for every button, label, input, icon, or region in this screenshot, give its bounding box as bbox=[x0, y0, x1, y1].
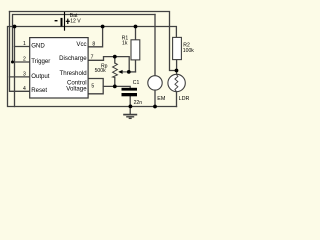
capacitor C1 plates bbox=[122, 88, 138, 91]
wire pin3 stub bbox=[10, 76, 30, 78]
svg-text:Reset: Reset bbox=[31, 87, 47, 94]
svg-text:7: 7 bbox=[91, 55, 94, 61]
wire pin1 feed from minus dot bbox=[15, 27, 30, 47]
svg-text:1k: 1k bbox=[122, 41, 128, 47]
wire inner rail (EM net) bbox=[13, 15, 156, 63]
svg-text:Voltage: Voltage bbox=[66, 85, 87, 92]
wire pot right end bbox=[129, 71, 136, 73]
svg-text:12 V: 12 V bbox=[70, 18, 81, 24]
IC U1 555 timer box bbox=[30, 38, 88, 98]
node EM bottom bbox=[153, 105, 157, 109]
potentiometer Rp wiper arrow bbox=[122, 71, 129, 73]
ground symbol bbox=[123, 115, 137, 119]
svg-text:5: 5 bbox=[91, 83, 94, 89]
wire R1 top feed bbox=[135, 27, 137, 40]
svg-text:4: 4 bbox=[23, 86, 26, 92]
svg-text:LDR: LDR bbox=[179, 96, 190, 102]
node vcc pin8 bbox=[101, 25, 105, 29]
wire C1 bottom to ground bbox=[129, 96, 131, 114]
wire EM top drop bbox=[154, 15, 156, 76]
resistor R1 1k body bbox=[131, 40, 140, 60]
node R1 top bbox=[134, 25, 138, 29]
svg-text:500k: 500k bbox=[95, 68, 106, 74]
node divider junction bbox=[175, 69, 179, 73]
node pot wiper junction bbox=[127, 70, 131, 74]
svg-text:1: 1 bbox=[23, 41, 26, 47]
svg-text:22n: 22n bbox=[134, 100, 143, 106]
battery plus sign bbox=[66, 19, 70, 24]
svg-text:100k: 100k bbox=[183, 48, 194, 54]
wire pin6 step and pin5 stub bbox=[88, 79, 103, 94]
LDR inner zigzag bbox=[175, 75, 178, 92]
node pin2 feed bbox=[11, 61, 14, 64]
svg-text:Discharge: Discharge bbox=[59, 55, 87, 62]
battery Bat plates bbox=[61, 18, 63, 27]
wire pin7 stub bbox=[88, 57, 129, 72]
svg-text:Threshold: Threshold bbox=[59, 70, 86, 77]
node pin7 / Rp top junction bbox=[113, 55, 117, 59]
wire outer rail top (trigger/divider net) bbox=[10, 12, 177, 71]
svg-text:2: 2 bbox=[23, 57, 26, 63]
svg-text:EM: EM bbox=[157, 96, 166, 102]
svg-text:Trigger: Trigger bbox=[31, 58, 50, 65]
wire Rp bottom stub bbox=[114, 78, 116, 87]
node C1 ground bbox=[129, 105, 133, 109]
svg-text:GND: GND bbox=[31, 43, 45, 50]
wire Rp top stub bbox=[114, 57, 116, 63]
LDR circle bbox=[168, 74, 185, 91]
electromagnet EM circle bbox=[148, 76, 162, 90]
wire R2 bottom to divider node bbox=[176, 60, 178, 75]
wire pin2 stub bbox=[13, 61, 30, 63]
wire LDR bottom bbox=[176, 92, 178, 107]
wire outer rail left drop to pin4 bbox=[10, 12, 30, 92]
resistor R2 100k body bbox=[173, 37, 182, 59]
wire pin5/pin6 node to C1 bbox=[103, 86, 130, 87]
wire battery minus left + ground wrap bottom rail bbox=[8, 27, 177, 107]
wire R1 bottom to pot node bbox=[135, 60, 137, 72]
wire EM bottom bbox=[154, 90, 156, 107]
node battery minus pin1 bbox=[13, 25, 17, 29]
pin numbers bbox=[23, 41, 95, 92]
text labels bbox=[31, 13, 194, 106]
wire battery plus rail to R2 bbox=[15, 27, 177, 38]
svg-text:C1: C1 bbox=[133, 80, 140, 86]
potentiometer Rp zigzag bbox=[113, 63, 118, 78]
svg-text:3: 3 bbox=[23, 72, 26, 78]
battery minus sign bbox=[55, 20, 58, 21]
svg-text:Vcc: Vcc bbox=[76, 41, 86, 48]
svg-text:8: 8 bbox=[92, 41, 95, 47]
svg-text:Output: Output bbox=[31, 73, 50, 80]
wire pin1 feed lower continuation bbox=[14, 47, 16, 107]
node Rp bottom / C1 wire junction bbox=[113, 85, 117, 89]
wire pin8 vcc feed bbox=[88, 27, 103, 47]
